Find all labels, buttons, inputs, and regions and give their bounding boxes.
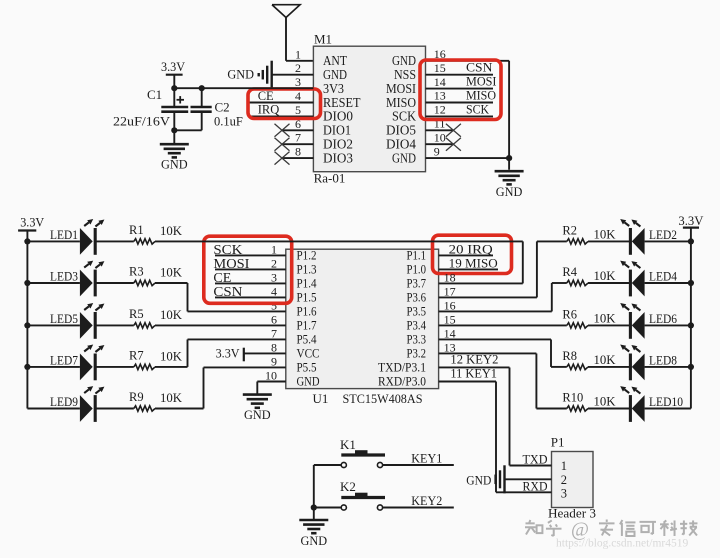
svg-text:C1: C1 [147, 87, 162, 102]
svg-text:R1: R1 [129, 223, 144, 237]
wire M1 pin11 no-connect [426, 129, 454, 131]
svg-text:MISO: MISO [386, 96, 416, 111]
svg-text:10: 10 [434, 130, 446, 144]
svg-text:CE: CE [213, 270, 231, 285]
svg-text:R5: R5 [129, 307, 144, 321]
node junction rail/C1 [171, 85, 177, 91]
no-connect X pin11 [446, 124, 461, 137]
svg-text:R2: R2 [562, 224, 577, 238]
capacitor C1 [173, 88, 175, 107]
svg-text:Ra-01: Ra-01 [314, 170, 346, 185]
svg-text:DIO2: DIO2 [323, 138, 353, 153]
svg-text:P1.1: P1.1 [407, 249, 427, 263]
wire pin12 TXD/P3.1 [439, 366, 510, 368]
svg-text:14: 14 [434, 75, 446, 89]
resistor R7 10K [95, 366, 134, 368]
node junction left rail [24, 322, 30, 328]
node junction right rail [688, 280, 694, 286]
svg-text:GND: GND [323, 68, 347, 83]
svg-text:P3.7: P3.7 [407, 277, 427, 291]
node junction left rail [24, 280, 30, 286]
wire pin16 P3.5 to R4 [439, 310, 552, 312]
resistor R9 10K [95, 408, 134, 410]
svg-text:LED3: LED3 [50, 270, 78, 284]
watermark zhihu [525, 522, 534, 524]
svg-text:10K: 10K [594, 312, 616, 326]
svg-text:20 IRQ: 20 IRQ [449, 243, 493, 257]
wire K2 to KEY2 [383, 507, 454, 509]
svg-text:DIO0: DIO0 [323, 110, 353, 125]
svg-text:GND: GND [297, 375, 320, 389]
svg-text:RXD: RXD [523, 480, 548, 494]
svg-text:NSS: NSS [394, 68, 416, 83]
node junction pin9/pin16 gnd [506, 155, 512, 161]
wire pin13 P3.2 to R10 [439, 352, 537, 354]
wire U1 net IRQ [439, 254, 493, 256]
node junction left rail [24, 364, 30, 370]
svg-text:LED7: LED7 [50, 354, 78, 368]
wire pin5 P1.6 from R3 [187, 283, 189, 311]
wire R7 to U1 [155, 366, 188, 368]
LED1 [27, 240, 80, 242]
wire pin10 GND [257, 380, 286, 382]
highlight box CE/IRQ [248, 89, 321, 119]
svg-text:GND: GND [392, 54, 416, 69]
wire right 3.3V rail [690, 228, 692, 409]
resistor R4 10K [567, 280, 588, 285]
svg-text:GND: GND [244, 407, 271, 422]
svg-text:KEY2: KEY2 [411, 494, 442, 508]
wire R9 to U1 [155, 408, 204, 410]
svg-text:DIO1: DIO1 [323, 124, 351, 139]
resistor R1 10K [95, 240, 134, 242]
svg-text:R7: R7 [129, 349, 144, 363]
svg-text:1: 1 [561, 459, 567, 473]
svg-text:LED1: LED1 [50, 228, 78, 242]
ground (M1) [495, 170, 524, 173]
svg-text:P1.4: P1.4 [297, 277, 318, 291]
wire pin14 P3.3 to R8 [439, 338, 551, 340]
svg-text:P1.2: P1.2 [297, 249, 317, 263]
ground (keys) [299, 519, 328, 522]
wire pin5 IRQ [248, 115, 313, 117]
svg-text:Header 3: Header 3 [548, 506, 596, 521]
svg-text:CSN: CSN [466, 60, 493, 75]
svg-text:GND: GND [301, 533, 328, 548]
svg-text:DIO3: DIO3 [323, 151, 353, 166]
wire M1 pin7 no-connect [282, 143, 313, 145]
svg-text:10K: 10K [160, 224, 182, 238]
svg-text:SCK: SCK [213, 242, 242, 257]
svg-text:P5.5: P5.5 [297, 361, 317, 375]
wire K2 left [314, 507, 341, 509]
wire R1 to U1 [155, 240, 523, 242]
wire K1 to KEY1 [383, 464, 454, 466]
svg-text:CE: CE [258, 89, 274, 103]
svg-text:P5.4: P5.4 [297, 333, 318, 347]
svg-text:LED10: LED10 [649, 395, 683, 409]
svg-text:LED5: LED5 [50, 312, 78, 326]
resistor R6 10K [567, 323, 588, 328]
svg-text:P3.2: P3.2 [407, 347, 427, 361]
wire LED4 to rail [645, 282, 691, 284]
svg-text:U1: U1 [313, 391, 329, 406]
resistor R8 10K [567, 364, 588, 369]
wire U1 to R8 [551, 366, 567, 368]
svg-text:RXD/P3.0: RXD/P3.0 [378, 375, 426, 389]
svg-text:P1.3: P1.3 [297, 263, 317, 277]
wire pin9 GND [426, 157, 510, 159]
svg-text:TXD/P3.1: TXD/P3.1 [378, 361, 426, 375]
svg-text:10K: 10K [594, 269, 616, 283]
svg-text:MISO: MISO [466, 87, 496, 102]
wire pin17 P3.6 to R2 [439, 296, 537, 298]
svg-text:R8: R8 [562, 349, 577, 363]
svg-text:K1: K1 [340, 437, 356, 452]
svg-text:3.3V: 3.3V [216, 346, 241, 361]
wire R5 to U1 [155, 324, 286, 326]
LED10 [588, 408, 630, 410]
svg-text:10K: 10K [160, 308, 182, 322]
no-connect X pin10 [446, 138, 461, 151]
wire pin11 RXD/P3.0 [439, 380, 496, 382]
wire pin1 ANT [286, 60, 313, 62]
svg-text:4: 4 [295, 89, 301, 103]
svg-text:VCC: VCC [297, 347, 320, 361]
wire U1 net MISO [439, 268, 498, 270]
LED7 [27, 366, 80, 368]
svg-text:17: 17 [444, 284, 456, 298]
svg-text:16: 16 [444, 298, 456, 312]
svg-text:KEY1: KEY1 [411, 452, 442, 466]
svg-text:P3.6: P3.6 [407, 291, 427, 305]
svg-text:R3: R3 [129, 265, 144, 279]
node junction right rail [688, 322, 694, 328]
svg-text:MOSI: MOSI [466, 74, 497, 89]
svg-text:P3.3: P3.3 [407, 333, 427, 347]
svg-text:P1.6: P1.6 [297, 305, 317, 319]
svg-text:10K: 10K [594, 395, 616, 409]
svg-text:GND: GND [227, 66, 254, 81]
svg-text:9: 9 [434, 144, 440, 158]
wire LED2 to rail [645, 240, 691, 242]
node junction right rail [688, 364, 694, 370]
svg-text:5: 5 [295, 103, 301, 117]
wire pin16 GND to ground [426, 60, 510, 62]
svg-text:MOSI: MOSI [213, 256, 250, 271]
svg-text:R4: R4 [562, 265, 577, 279]
svg-text:LED6: LED6 [649, 312, 677, 326]
node junction right rail [688, 238, 694, 244]
ground (U1) [243, 393, 272, 396]
svg-text:GND: GND [466, 472, 491, 487]
svg-text:18: 18 [444, 270, 456, 284]
svg-text:LED9: LED9 [50, 395, 78, 409]
svg-text:10K: 10K [160, 391, 182, 405]
ground (caps) [173, 130, 175, 144]
svg-text:3.3V: 3.3V [161, 59, 186, 74]
wire C2 bottom to C1 bottom [174, 129, 201, 131]
svg-text:P1.0: P1.0 [407, 263, 427, 277]
svg-text:11 KEY1: 11 KEY1 [450, 366, 497, 380]
svg-text:2: 2 [295, 61, 301, 75]
svg-text:3V3: 3V3 [323, 82, 344, 97]
svg-text:GND: GND [161, 157, 188, 172]
svg-text:C2: C2 [215, 100, 230, 115]
svg-text:10K: 10K [160, 350, 182, 364]
svg-text:GND: GND [496, 184, 523, 199]
svg-text:IRQ: IRQ [258, 103, 280, 117]
wire M1 net MISO [426, 102, 494, 104]
node junction left rail [24, 238, 30, 244]
svg-text:LED4: LED4 [649, 270, 678, 284]
antenna [272, 5, 300, 18]
node junction C1/C2 gnd [171, 127, 177, 133]
wire K1 left [314, 464, 341, 466]
svg-text:R10: R10 [562, 391, 583, 405]
highlight box SCK/MOSI/CE/CSN [204, 236, 292, 303]
svg-text:P3.5: P3.5 [407, 305, 427, 319]
header P1 [552, 452, 594, 508]
svg-text:12 KEY2: 12 KEY2 [450, 352, 498, 366]
wire U1 to R4 [552, 282, 567, 284]
svg-text:SCK: SCK [466, 101, 490, 116]
resistor R5 10K [95, 324, 134, 326]
wire M1 net SCK [426, 115, 494, 117]
svg-text:3.3V: 3.3V [678, 213, 704, 228]
wire pin15 P3.4 to R6 [439, 324, 567, 326]
capacitor C2 [201, 88, 203, 107]
wire R3 to U1 [155, 282, 188, 284]
wire pin2 GND [272, 74, 314, 76]
wire U1 to R10 [536, 408, 566, 410]
wire U1 net CSN [215, 296, 286, 298]
resistor R3 10K [95, 282, 134, 284]
wire U1 net SCK [215, 254, 286, 256]
resistor R10 10K [567, 406, 588, 411]
module M1 Ra-01 [313, 46, 425, 172]
svg-text:K2: K2 [340, 479, 356, 494]
LED6 [588, 324, 630, 326]
LED4 [588, 282, 630, 284]
svg-text:10K: 10K [594, 353, 616, 367]
svg-text:DIO5: DIO5 [386, 124, 416, 139]
wire M1 net CSN [426, 74, 494, 76]
highlight box IRQ/MISO [433, 235, 512, 273]
node junction K2/gnd [311, 504, 317, 510]
wire pin9 P5.5 from R9 [203, 367, 205, 408]
wire pin4 CE [248, 102, 313, 104]
svg-text:ANT: ANT [323, 54, 347, 69]
wire M1 pin6 no-connect [282, 129, 313, 131]
wire M1 pin10 no-connect [426, 143, 454, 145]
svg-text:3.3V: 3.3V [20, 214, 45, 229]
svg-text:13: 13 [434, 89, 446, 103]
wire pin7 P5.4 from R7 [187, 339, 189, 366]
svg-text:R6: R6 [562, 308, 577, 322]
LED9 [27, 408, 80, 410]
wire U1 net MOSI [215, 268, 286, 270]
svg-text:2: 2 [561, 473, 567, 487]
wire GND to header pin2 [505, 478, 552, 480]
svg-text:LED8: LED8 [649, 354, 677, 368]
svg-text:R9: R9 [129, 390, 144, 404]
wire RXD to header pin3 [496, 491, 552, 493]
svg-text:STC15W408AS: STC15W408AS [343, 391, 423, 406]
wire LED10 to rail [645, 408, 691, 410]
wire 3.3V rail to pin3 3V3 [174, 87, 313, 89]
resistor R2 10K [567, 239, 588, 244]
svg-text:3: 3 [295, 75, 301, 89]
wire U1 to R2 [537, 240, 567, 242]
wire pin18 P3.7 to LED row1 [439, 282, 523, 284]
svg-text:SCK: SCK [392, 110, 416, 125]
highlight box CSN/MOSI/MISO/SCK [420, 60, 501, 120]
svg-text:15: 15 [444, 312, 456, 326]
svg-text:0.1uF: 0.1uF [214, 115, 243, 129]
node junction rail/C2 [199, 85, 205, 91]
svg-text:P1: P1 [551, 434, 565, 449]
wire LED6 to rail [645, 324, 691, 326]
svg-text:CSN: CSN [213, 284, 242, 299]
svg-text:DIO4: DIO4 [386, 138, 416, 153]
LED3 [27, 282, 80, 284]
svg-text:P1.7: P1.7 [297, 319, 317, 333]
wire U1 net CE [215, 282, 286, 284]
wire left 3.3V rail [26, 231, 28, 409]
svg-text:P1.5: P1.5 [297, 291, 317, 305]
LED5 [27, 324, 80, 326]
wire TXD to header pin1 [510, 465, 552, 467]
wire LED8 to rail [645, 366, 691, 368]
svg-text:1: 1 [295, 47, 301, 61]
no-connect X pin7 [275, 138, 290, 151]
svg-text:22uF/16V: 22uF/16V [113, 115, 170, 129]
LED2 [588, 240, 630, 242]
svg-text:15: 15 [434, 61, 446, 75]
svg-text:MOSI: MOSI [386, 82, 416, 97]
svg-text:GND: GND [392, 151, 416, 166]
wire M1 net MOSI [426, 88, 494, 90]
svg-text:P3.4: P3.4 [407, 319, 427, 333]
no-connect X pin8 [275, 152, 290, 165]
svg-text:10K: 10K [160, 266, 182, 280]
wire keys ground rail [313, 465, 315, 520]
LED8 [588, 366, 630, 368]
svg-text:14: 14 [444, 326, 456, 340]
wire M1 pin8 no-connect [282, 157, 313, 159]
MCU U1 STC15W408AS [286, 249, 439, 388]
svg-text:M1: M1 [314, 32, 332, 47]
no-connect X pin6 [275, 124, 290, 137]
svg-text:10K: 10K [594, 228, 616, 242]
svg-text:RESET: RESET [323, 96, 361, 111]
svg-text:8: 8 [295, 145, 301, 159]
svg-text:19 MISO: 19 MISO [449, 257, 498, 271]
svg-text:https://blog.csdn.net/mr4519: https://blog.csdn.net/mr4519 [556, 538, 688, 550]
svg-text:12: 12 [434, 103, 446, 117]
svg-text:3: 3 [561, 487, 567, 501]
svg-text:7: 7 [295, 131, 301, 145]
svg-text:LED2: LED2 [649, 228, 677, 242]
svg-text:TXD: TXD [523, 453, 548, 467]
